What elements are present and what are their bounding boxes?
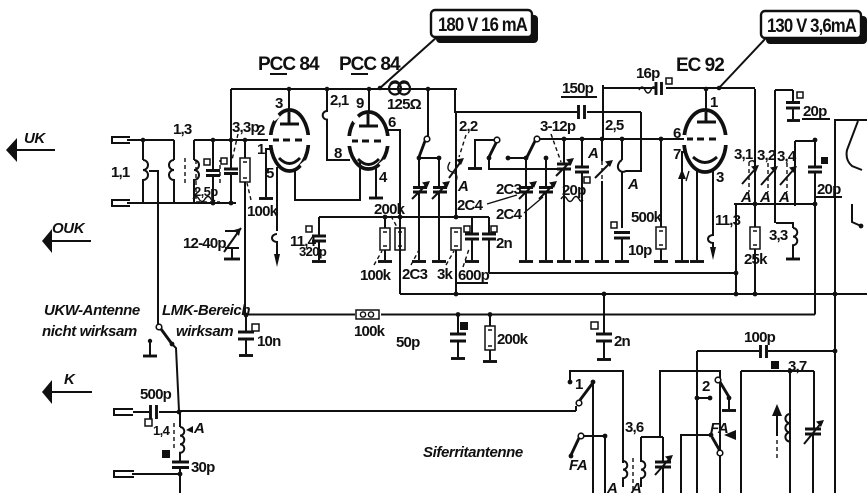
wire tube bottom x697 [696,171,698,260]
node y314 x458 [456,312,461,317]
svg-text:2C3: 2C3 [496,181,522,198]
svg-text:1,1: 1,1 [111,164,130,181]
chassis bus y273 [489,272,736,274]
triode EC92 envelope [684,110,726,172]
svg-text:1: 1 [710,94,718,111]
coil 11,3 [708,235,713,247]
node 2C3a [417,156,422,161]
varcap 2C4b [545,158,547,187]
coil 3,6 b [641,437,645,487]
svg-text:2n: 2n [614,333,631,350]
chassis bar bracket [468,167,482,170]
chassis bar 600p [465,260,479,263]
node rail-leader [378,86,383,91]
wire x835 bottom [834,294,836,493]
svg-text:1: 1 [575,376,583,393]
chassis bar pin7 [675,260,689,263]
hook right edge [852,204,861,226]
svg-text:200k: 200k [497,331,529,348]
leader wire from 180V box to rail [380,37,437,88]
svg-text:16p: 16p [636,65,660,82]
square marker 20p right2 [821,157,828,164]
node bus x736 [734,292,739,297]
svg-text:A: A [740,189,751,206]
switch FA right node [709,433,714,438]
ferrite coil [785,414,790,442]
ferrite tuned line [789,371,791,493]
chassis bar 50p [451,357,465,360]
wire antenna top [127,139,174,141]
svg-text:2,1: 2,1 [330,92,349,109]
triode PCC84a cathode [279,158,300,164]
trimmer A x602 [601,139,603,161]
envelope gaps PCC84b [347,136,352,146]
svg-text:A: A [778,189,789,206]
wire x593 down [592,382,594,493]
svg-text:20p: 20p [803,103,827,120]
main bus y294 [400,293,867,295]
svg-text:Siferritantenne: Siferritantenne [423,444,523,461]
ground stub LMK [149,341,151,355]
pin9 lead PCC84b [368,89,370,113]
capacitor 20p mid [581,139,583,166]
svg-text:150p: 150p [562,80,594,97]
svg-text:3,3: 3,3 [769,227,788,244]
trimmer 3,2 [767,163,769,192]
ground pin4 [369,197,383,200]
triode EC92 cathode [693,157,717,163]
capacitor 3,3p [224,169,238,174]
node y139 x663 [659,137,664,142]
triode PCC84b anode [359,114,378,126]
corner box right top [835,120,867,294]
dashed pointer 100k mid [374,251,382,265]
node rail-leader2 [717,86,722,91]
svg-text:FA: FA [569,457,587,474]
chassis bar x697 [690,260,704,263]
square marker 2n [591,322,598,329]
switch contact mid1 [494,137,500,143]
node switch1 contact [568,380,573,385]
capacitor 10p [614,233,630,239]
svg-text:PCC 84: PCC 84 [339,54,401,75]
wire vertical x603 [602,85,604,139]
ground 3,3 [792,252,794,258]
wire coupling line y112 [455,89,641,112]
chassis bar 2C4b [539,260,553,263]
choke 125ohm [389,83,401,95]
antenna plug top [112,137,130,143]
svg-text:2: 2 [257,122,265,139]
square marker 20p top [797,92,803,98]
LMK switch contact [156,324,162,330]
leader wire from 130V box to rail [719,38,766,88]
svg-text:12-40p: 12-40p [183,235,226,252]
LMK switch arm [161,329,172,344]
triode EC92 grid [687,138,717,141]
chassis bar 2C4a [519,260,533,263]
coupling coil 2,1 [323,89,350,160]
svg-text:100p: 100p [744,329,776,346]
node rail-x428 [426,87,431,92]
svg-text:UKW-Antenne: UKW-Antenne [44,302,140,319]
core dashes 1,1/1,3 [184,158,186,186]
node x736 y275 [734,271,739,276]
trimmer 3-12p [563,139,565,163]
wire y204 link [734,203,815,205]
capacitor 20p top right [792,90,794,101]
svg-text:500p: 500p [140,386,172,403]
ferrite arrow up [776,414,778,436]
svg-text:2C4: 2C4 [457,197,484,214]
svg-text:2: 2 [702,378,710,395]
switch contact 2C3a [424,136,430,142]
node 2C4b [544,156,549,161]
node 100p right [833,349,838,354]
chassis bar 10p [615,260,629,263]
trimmer 3,4 [786,163,788,192]
switch2 arm [720,382,729,397]
wire FA left link [584,435,605,437]
square marker 500p [145,419,152,426]
node bus x604 [602,292,607,297]
svg-text:2,2: 2,2 [459,118,478,135]
wire 2C3 link [419,157,439,159]
square marker 16p [666,78,672,84]
wire tap from coil [149,171,158,326]
svg-text:A: A [606,480,617,493]
wire x736 down [735,204,737,294]
underline 20p top [802,118,830,120]
ground switch2 [728,398,730,409]
square marker 100p [771,361,779,369]
coil 1,3 [194,140,199,203]
svg-text:A: A [630,480,641,493]
triode PCC84a grid [273,139,303,142]
wire y140 right [795,140,815,142]
svg-text:3,2: 3,2 [757,147,776,164]
switch1 arm [580,384,592,400]
wire box B [660,371,720,450]
varcap 2C4a [525,158,527,187]
svg-text:1,4: 1,4 [153,423,171,438]
node arm mid1 [487,156,492,161]
coil 3,6 a [623,461,627,487]
chassis bar x602 [595,260,609,263]
pin5 lead PCC84a [276,167,278,231]
chassis bar 320p [312,260,326,263]
arrow FA right [724,430,736,440]
wire ferrite line [179,410,576,412]
switch arm mid1 [489,143,496,157]
core dashes 3,6 [632,458,634,490]
coil 2,5 loop [618,112,641,172]
chassis bar 2C3a [412,260,426,263]
node x245 [243,138,248,143]
capacitor 320p [318,217,320,235]
chassis bar 100k mid [378,260,392,263]
svg-text:3: 3 [716,169,724,186]
node 500p junction [177,410,182,415]
capacitor 500p inline [133,411,180,413]
capacitor 600p [471,217,473,233]
node plug4 [178,472,183,477]
dashed pointer 3k [446,251,454,265]
resistor 100k inline [356,310,379,319]
resistor 100k mid [384,217,386,228]
square marker 2,5p b [221,158,227,164]
svg-text:3,1: 3,1 [734,146,753,163]
node x213 [211,138,216,143]
callout box 130V shadow [766,16,867,44]
svg-text:UK: UK [24,130,46,147]
node x815 [813,138,818,143]
svg-text:100k: 100k [247,203,279,220]
capacitor 30p [172,462,189,468]
triode PCC84b cathode [358,159,379,165]
svg-text:180 V 16 mA: 180 V 16 mA [438,15,528,36]
arrow K [50,391,92,393]
callout box 180V 16mA [431,10,532,37]
capacitor 150p inline [579,105,585,119]
switch2 contact open [715,377,721,383]
dashed pointer 2C3 [411,248,420,265]
node FA left [603,434,608,439]
svg-text:2C3: 2C3 [402,266,428,283]
arrow UK [14,149,55,151]
resistor 25k [750,227,760,249]
triode PCC84b grid [352,140,382,143]
svg-text:A: A [457,178,468,195]
svg-text:8: 8 [334,145,342,162]
dashed pointer 600p [463,249,469,267]
node arm mid2 [524,156,529,161]
varcap 3,6 [662,437,664,461]
ferrite box C [741,371,814,493]
antenna plug 4 [114,471,134,477]
node y217 x385 [383,215,388,220]
chassis bar 3-12p [557,260,571,263]
svg-text:125Ω: 125Ω [387,96,422,113]
svg-text:3,4: 3,4 [777,148,797,165]
dashed pointer 3-12p [551,134,561,162]
triode PCC84b envelope [349,112,388,169]
switch1 contact open [576,400,582,406]
dashed pointer 2,2 [459,135,466,157]
wire HT rail left [231,88,457,90]
svg-text:nicht wirksam: nicht wirksam [42,323,137,340]
svg-text:5: 5 [266,165,274,182]
wire x456 down [455,112,457,217]
svg-text:30p: 30p [191,459,215,476]
wire x681 down [680,435,682,493]
wire FA right link [680,434,711,436]
svg-text:10n: 10n [257,333,281,350]
node bus x456 [454,292,459,297]
pin3 lead PCC84a [288,89,290,111]
callout box 180V 16mA shadow [436,15,538,43]
pin2 wire PCC84a [245,139,271,141]
trimmer 3,1 [748,162,750,192]
capacitor 20p right2 [814,140,816,166]
wire y169 [489,158,557,169]
svg-text:10p: 10p [628,242,652,259]
svg-text:500k: 500k [631,209,663,226]
svg-text:1,3: 1,3 [173,121,192,138]
wire x776 down [775,90,793,223]
pin1 stub PCC84a [266,149,272,197]
varcap 2C3b [438,158,440,187]
svg-text:50p: 50p [396,334,420,351]
cathode link wire tubes [295,162,360,200]
node x456 [454,215,459,220]
underline 20p right2 [816,196,842,198]
chassis bar 200k [483,360,497,363]
svg-text:25k: 25k [744,251,768,268]
wire LMK down [172,344,179,411]
coil 3,3 [793,228,797,252]
dashed pointer 100k [247,183,251,200]
node antenna top [141,138,146,143]
node bus x755 [753,292,758,297]
wire 100p line [697,350,835,352]
capacitor 100p inline [761,345,767,358]
antenna plug 2 [112,200,130,206]
coil 1,4 [180,412,184,461]
triode PCC84a envelope [271,110,309,171]
wire x795 down [794,141,796,206]
trimmer 12-40p [225,231,239,258]
chassis bar 2C3b [432,260,446,263]
pin7 wire EC92 [682,152,684,260]
node FA arm [569,454,574,459]
coil 11,4 [272,234,277,254]
svg-text:K: K [64,371,76,388]
capacitor 2n mid [488,217,490,233]
dashed pointer 3,3p [232,134,238,160]
wire x605 down [604,436,606,493]
node y139 x622 [620,137,625,142]
coil 1,1 primary [143,140,148,203]
switch bracket mid [475,140,494,167]
node y314 x246 [244,313,249,318]
svg-text:1: 1 [257,141,265,158]
svg-text:A: A [759,189,770,206]
wire x428 down [427,89,429,136]
chassis bar 10n [239,354,253,357]
svg-text:20p: 20p [817,181,841,198]
callout box 130V 3,6mA [761,11,861,38]
square marker 320p [306,226,312,232]
core dashes ferrite [776,440,778,460]
capacitor 10n [245,315,247,331]
switch FA left arm [571,438,579,455]
svg-text:EC 92: EC 92 [676,55,724,76]
svg-text:A: A [193,420,204,437]
svg-text:wirksam: wirksam [176,323,233,340]
core dashes 1,4 [173,423,175,449]
varcap right bottom [812,427,814,429]
node y139 x602 [600,137,605,142]
coil 1,1 secondary [169,140,174,203]
wire 3,3 branch [776,223,793,228]
svg-text:OUK: OUK [52,220,86,237]
resistor 200k shunt [489,314,491,326]
node 2C3b [437,156,442,161]
square marker 600p [464,226,470,232]
switch FA left contact [578,433,584,439]
capacitor 2,5p [212,140,214,169]
node x755 y204 [753,202,758,207]
triode PCC84a anode [280,112,299,124]
node switch2 left [695,396,700,401]
wire anode EC92 right [754,89,756,204]
wire y217 left [319,216,456,218]
svg-text:3,6: 3,6 [625,419,644,436]
squiggle 20p mid [561,197,583,202]
svg-text:320p: 320p [299,244,327,259]
switch FA right contact [717,450,723,456]
wire HT rail right [603,87,755,89]
resistor 3k [451,228,461,250]
svg-text:600p: 600p [458,267,490,284]
squiggle at 16p [639,87,655,93]
node x231 [229,138,234,143]
wire top cap row [456,216,489,218]
wire antenna bottom [127,202,236,204]
node 3,7 top [788,369,793,374]
arrow OUK [50,240,91,242]
node stub end [506,156,511,161]
svg-text:3k: 3k [437,266,454,283]
node switch2 [727,396,732,401]
node y314 x490 [488,312,493,317]
square marker 30p [162,450,170,458]
pin3 wire EC92 [712,170,714,236]
svg-text:200k: 200k [374,201,406,218]
switch FA right arm [712,437,720,451]
square marker 50p [460,322,468,330]
node rail-x327 [325,87,330,92]
wire top link [194,139,271,141]
svg-text:3,3p: 3,3p [232,119,259,136]
wire grid line y139 [539,138,684,140]
switch1 box top [570,371,623,463]
node switch2 stub [708,396,713,401]
resistor 100k grid [244,140,246,158]
node rail-pin9 [367,87,372,92]
svg-text:2,5: 2,5 [605,117,624,134]
envelope gaps EC92 [681,135,686,145]
pointer 2C4 left [487,195,517,204]
resistor 500k [660,139,662,227]
switch contact mid2 [534,136,540,142]
envelope gaps PCC84a [268,135,273,145]
chassis bar 500k [654,260,668,263]
svg-text:6: 6 [388,114,396,131]
square marker 10n [252,324,259,331]
antenna plug 3 [114,409,133,415]
square marker 20p mid [584,177,590,183]
node switch1 arm [591,380,596,385]
node x835 y294 [833,292,838,297]
wire x720 below FA [719,456,721,493]
triode EC92 anode [697,112,716,122]
varcap 2C3a [418,158,420,187]
svg-text:2C4: 2C4 [496,206,523,223]
capacitor 50p [457,314,459,333]
switch arm mid2 [527,141,535,157]
